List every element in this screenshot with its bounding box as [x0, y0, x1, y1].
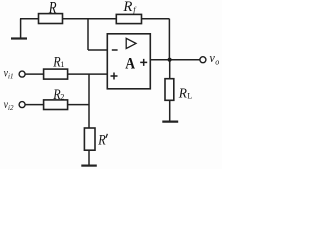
svg-text:R: R	[48, 0, 57, 17]
svg-text:2: 2	[60, 93, 64, 102]
svg-text:L: L	[187, 92, 192, 101]
svg-text:R: R	[122, 0, 132, 15]
svg-text:R: R	[52, 87, 60, 103]
svg-text:R: R	[178, 87, 188, 102]
svg-text:i2: i2	[8, 104, 14, 112]
svg-text:o: o	[215, 58, 219, 67]
svg-text:v: v	[210, 50, 216, 65]
svg-text:A: A	[125, 55, 135, 72]
svg-text:R: R	[52, 54, 60, 70]
svg-text:R: R	[97, 132, 105, 148]
svg-text:1: 1	[60, 60, 64, 69]
svg-text:i1: i1	[8, 72, 13, 80]
